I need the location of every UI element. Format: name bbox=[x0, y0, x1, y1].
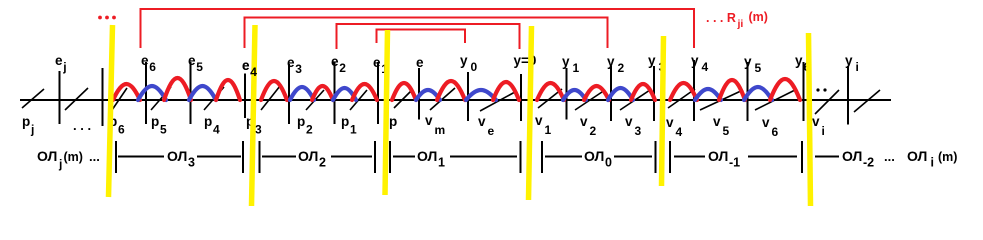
svg-text:v: v bbox=[625, 114, 633, 129]
svg-text:5: 5 bbox=[196, 60, 203, 74]
svg-text:m: m bbox=[435, 123, 446, 137]
svg-text:e: e bbox=[188, 53, 196, 68]
svg-text:p: p bbox=[297, 114, 305, 129]
svg-text:4: 4 bbox=[250, 65, 257, 79]
svg-text:...: ... bbox=[884, 149, 895, 164]
svg-text:v: v bbox=[535, 113, 543, 128]
svg-text:ОЛ: ОЛ bbox=[417, 148, 437, 164]
svg-text:j: j bbox=[62, 60, 66, 74]
svg-text:j: j bbox=[30, 123, 34, 137]
svg-text:v: v bbox=[762, 115, 770, 130]
svg-text:1: 1 bbox=[350, 123, 357, 137]
svg-text:ОЛ: ОЛ bbox=[584, 148, 604, 164]
svg-text:e: e bbox=[488, 124, 495, 138]
svg-text:v: v bbox=[425, 113, 433, 128]
svg-text:v: v bbox=[478, 114, 486, 129]
svg-text:i: i bbox=[856, 60, 859, 74]
svg-text:p: p bbox=[341, 114, 349, 129]
svg-text:y: y bbox=[648, 53, 656, 68]
svg-text:6: 6 bbox=[149, 60, 156, 74]
svg-text:5: 5 bbox=[160, 123, 167, 137]
svg-text:i: i bbox=[822, 124, 825, 138]
svg-text:2: 2 bbox=[618, 61, 625, 75]
svg-text:v: v bbox=[713, 114, 721, 129]
svg-text:e: e bbox=[416, 55, 424, 70]
svg-text:-1: -1 bbox=[729, 156, 740, 170]
svg-text:3: 3 bbox=[255, 123, 262, 137]
svg-text:4: 4 bbox=[702, 60, 709, 74]
svg-text:1: 1 bbox=[545, 123, 552, 137]
svg-text:e: e bbox=[55, 53, 63, 68]
svg-text:v: v bbox=[580, 114, 588, 129]
svg-text:. . .: . . . bbox=[73, 118, 91, 133]
svg-text:y: y bbox=[691, 53, 699, 68]
svg-text:p: p bbox=[151, 114, 159, 129]
svg-text:ОЛ: ОЛ bbox=[842, 148, 862, 164]
svg-text:-2: -2 bbox=[863, 156, 874, 170]
svg-text:2: 2 bbox=[339, 61, 346, 75]
svg-text:1: 1 bbox=[438, 156, 445, 170]
svg-text:2: 2 bbox=[590, 124, 597, 138]
svg-text:ji: ji bbox=[737, 18, 744, 30]
svg-text:v: v bbox=[812, 114, 820, 129]
svg-text:p: p bbox=[204, 114, 212, 129]
svg-text:y: y bbox=[607, 54, 615, 69]
svg-text:(m): (m) bbox=[938, 150, 957, 164]
svg-text:2: 2 bbox=[306, 123, 313, 137]
svg-text:j: j bbox=[58, 157, 62, 171]
svg-text:0: 0 bbox=[605, 156, 612, 170]
svg-text:. . . R: . . . R bbox=[706, 11, 736, 25]
svg-text:(m): (m) bbox=[64, 150, 83, 164]
svg-text:e: e bbox=[331, 54, 339, 69]
svg-text:5: 5 bbox=[723, 124, 730, 138]
svg-text:e: e bbox=[141, 53, 149, 68]
svg-text:1: 1 bbox=[573, 61, 580, 75]
svg-text:ОЛ: ОЛ bbox=[907, 148, 927, 164]
svg-text:6: 6 bbox=[118, 123, 125, 137]
svg-text:(m): (m) bbox=[749, 10, 768, 24]
svg-text:p: p bbox=[22, 114, 30, 129]
svg-text:ОЛ: ОЛ bbox=[708, 148, 728, 164]
svg-text:2: 2 bbox=[319, 156, 326, 170]
svg-text:3: 3 bbox=[635, 124, 642, 138]
svg-text:3: 3 bbox=[295, 62, 302, 76]
svg-text:e: e bbox=[373, 55, 381, 70]
svg-text:4: 4 bbox=[213, 123, 220, 137]
svg-text:ОЛ: ОЛ bbox=[37, 148, 57, 164]
svg-text:0: 0 bbox=[471, 60, 478, 74]
svg-text:6: 6 bbox=[772, 125, 779, 139]
svg-text:3: 3 bbox=[188, 156, 195, 170]
svg-text:y: y bbox=[744, 54, 752, 69]
svg-text:y: y bbox=[795, 53, 803, 68]
svg-text:e: e bbox=[242, 58, 250, 73]
svg-text:5: 5 bbox=[755, 61, 762, 75]
svg-text:4: 4 bbox=[676, 125, 683, 139]
svg-text:ОЛ: ОЛ bbox=[167, 148, 187, 164]
svg-text:p: p bbox=[389, 114, 397, 129]
svg-text:...: ... bbox=[89, 149, 100, 164]
svg-text:e: e bbox=[287, 55, 295, 70]
svg-text:y: y bbox=[845, 53, 853, 68]
svg-text:v: v bbox=[666, 115, 674, 130]
svg-text:i: i bbox=[931, 156, 934, 170]
svg-text:ОЛ: ОЛ bbox=[298, 148, 318, 164]
svg-text:y: y bbox=[562, 54, 570, 69]
svg-text:y: y bbox=[460, 53, 468, 68]
